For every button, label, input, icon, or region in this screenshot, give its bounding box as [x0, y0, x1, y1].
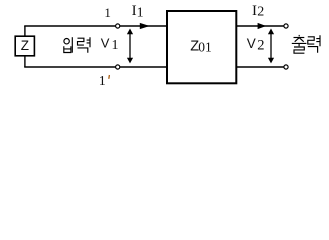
terminal 1' (open circle): [116, 65, 120, 69]
impedance Z (source) box: [15, 36, 34, 56]
wire: top conductor right of terminal 1: [120, 25, 167, 27]
svg-text:2: 2: [257, 38, 264, 54]
two-port network box Z01: [167, 11, 236, 83]
svg-text:1: 1: [112, 38, 119, 53]
node label 1: [104, 5, 111, 20]
wire: Z top lead: [24, 26, 26, 36]
label V2: [247, 36, 265, 54]
label 출력 (output) : hangul 출: [292, 35, 307, 53]
wire: top conductor from Z01 to terminal 2: [237, 25, 284, 27]
svg-text:2: 2: [257, 5, 264, 20]
terminal 2' (open circle): [284, 65, 288, 69]
terminal 2 (open circle): [284, 24, 288, 28]
label Z01: [190, 39, 212, 55]
label V1: [101, 35, 119, 53]
wire: bottom conductor from Z01 to terminal 2': [237, 66, 284, 68]
svg-text:V: V: [101, 35, 110, 50]
svg-text:1: 1: [137, 5, 144, 20]
label I2: [252, 3, 264, 20]
voltage arrow V1 (double headed): [127, 29, 133, 64]
label 입력 (input) : hangul 입: [64, 37, 73, 53]
svg-text:I: I: [252, 3, 257, 19]
wire: top conductor left of terminal 1: [24, 25, 115, 27]
label Z (source impedance value): [21, 38, 29, 53]
svg-text:1: 1: [99, 74, 106, 89]
svg-text:Z: Z: [21, 38, 29, 53]
svg-text:1: 1: [104, 5, 111, 20]
terminal 1 (open circle): [116, 24, 120, 28]
label 입력 (input) : hangul 력: [78, 37, 91, 53]
node label 1': [99, 74, 110, 89]
svg-text:01: 01: [198, 40, 212, 55]
svg-text:V: V: [247, 36, 256, 51]
wire: bottom conductor right of terminal 1': [120, 66, 167, 68]
voltage arrow V2 (double headed): [268, 29, 274, 64]
current arrow I2 (on top wire): [258, 23, 267, 29]
label I1: [132, 3, 144, 20]
wire: bottom conductor left of terminal 1': [24, 66, 115, 68]
label 출력 (output) : hangul 력: [308, 35, 320, 52]
wire: Z bottom lead: [24, 56, 26, 67]
current arrow I1 (on top wire): [140, 23, 150, 29]
